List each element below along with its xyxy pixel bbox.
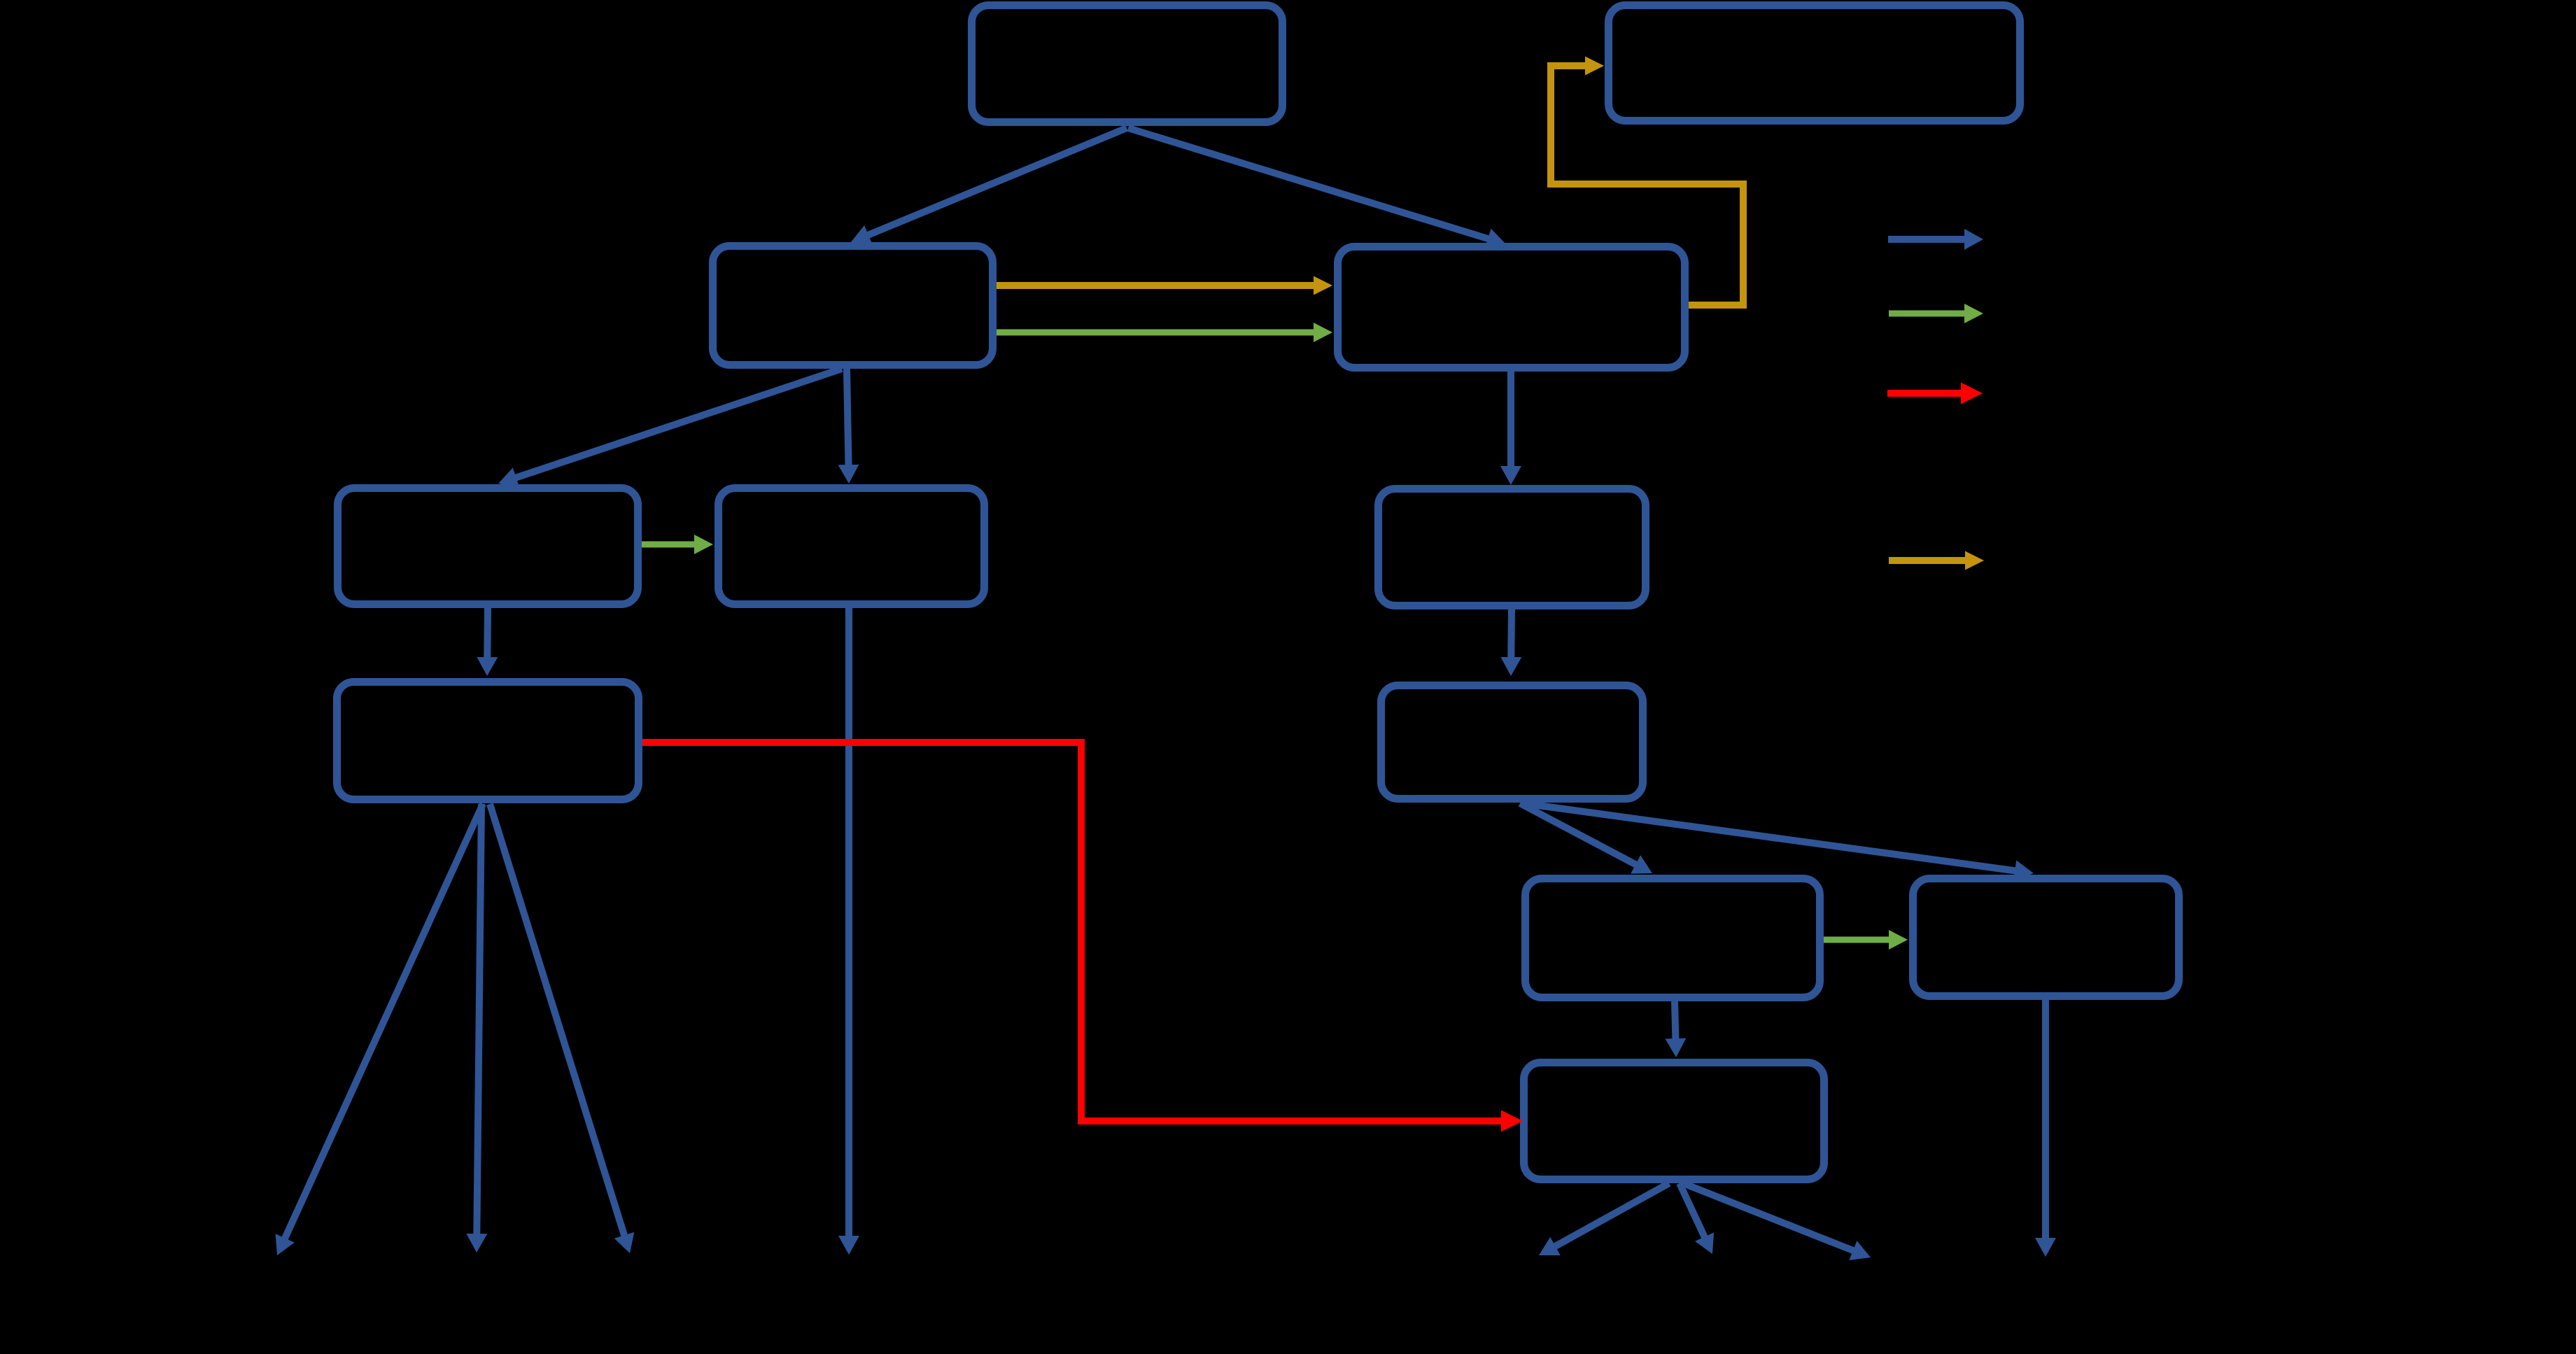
box B6 bottom-right (1913, 879, 2179, 996)
box R3 right-chain (1379, 489, 1646, 606)
arrow L2 to R2 green (997, 330, 1314, 336)
arrow B3 down (845, 608, 852, 1236)
legend arrow blue (1888, 236, 1965, 243)
legend arrow red (1887, 390, 1962, 397)
orange feedback arrow R2 to TR (elbow) (1551, 66, 1743, 305)
box B5 bottom (1526, 879, 1820, 998)
arrow R4 to B5 (1520, 803, 1636, 865)
arrow B5 to B7 (1675, 1001, 1675, 1039)
arrow B7 fan mid (1680, 1183, 1705, 1237)
arrow B2 to B4 (484, 608, 491, 658)
arrow B7 fan right (1683, 1183, 1854, 1250)
box B4 left-chain (337, 682, 639, 800)
box TR top-right (1609, 6, 2020, 121)
box R4 right-chain (1381, 686, 1643, 799)
box T top (972, 6, 1283, 122)
red arrow B4 to B7 (elbow) (642, 742, 1502, 1121)
box B7 bottom (1524, 1063, 1824, 1180)
arrow R3 to R4 (1507, 609, 1515, 658)
box B2 row3-left (338, 488, 638, 605)
arrow T to L2 (868, 128, 1127, 235)
box B3 row3-mid (719, 488, 985, 605)
arrow L2 to B3 (847, 369, 849, 465)
arrow B5 to B6 green (1824, 937, 1889, 943)
legend arrow orange (1889, 557, 1966, 564)
legend arrow green (1889, 311, 1965, 317)
arrow T to R2 (1128, 128, 1488, 239)
arrow L2 to B2 (516, 369, 842, 478)
arrow B4 fan mid (477, 804, 481, 1234)
arrow R2 to R3 (1507, 372, 1514, 467)
box R2 row2-right (1338, 247, 1685, 368)
arrow L2 to R2 orange (997, 282, 1314, 289)
arrow B2 to B3 green (642, 542, 695, 548)
arrow B6 down (2042, 1000, 2049, 1239)
box L2 row2-left (713, 246, 993, 365)
arrow B4 fan left (285, 804, 483, 1239)
arrow R4 to B6 (1523, 803, 2015, 871)
arrow B7 fan left (1555, 1183, 1669, 1246)
arrow B4 fan right (490, 804, 624, 1236)
